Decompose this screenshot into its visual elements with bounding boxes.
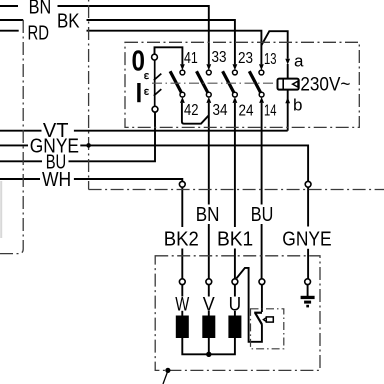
wire VT left segment (0, 130, 42, 132)
winding W (176, 316, 189, 339)
wire BN right segment to pole 33 (58, 6, 209, 64)
wire pole 42 down (182, 103, 209, 124)
pole 41 plug arrow down (180, 64, 185, 70)
lamp inner divider (282, 79, 284, 89)
svg-text:BK1: BK1 (217, 229, 253, 251)
pole 24 bottom circle (233, 92, 238, 97)
wire VT right segment to b (74, 130, 288, 132)
coupling line (152, 82, 277, 84)
connector circle WH (179, 181, 185, 187)
main switch top contact circle (152, 54, 158, 60)
wire GNYE right segment (80, 145, 308, 181)
wire GNYE below connector down to motor (307, 187, 309, 226)
pole 14 plug arrow up (259, 97, 264, 103)
wire branch RD to lamp terminal a (261, 31, 287, 59)
svg-text:23: 23 (238, 50, 253, 67)
motor terminal V circle (206, 279, 212, 285)
wire BU left segment (0, 160, 42, 162)
wire BK right segment to pole 23 (87, 20, 235, 64)
thermal actuator arrow (263, 318, 266, 322)
wire BN pole 34 down (208, 103, 210, 205)
svg-text:13: 13 (264, 51, 277, 68)
junction dot GNYE bond (86, 143, 91, 148)
wire BK1 pole 24 down (234, 103, 236, 227)
svg-text:V: V (203, 294, 215, 315)
pole 33 top circle (206, 70, 211, 75)
svg-text:230V~: 230V~ (300, 75, 350, 96)
pole 33 blade (197, 71, 208, 92)
wire motor U label stubs (234, 285, 236, 297)
lamp inner triangle (293, 81, 298, 87)
pole 33 plug arrow down (206, 64, 211, 70)
pole 23 plug arrow down (233, 64, 238, 70)
thermal actuator body (266, 317, 273, 322)
wire BK left segment (0, 19, 23, 21)
wire WH left segment (0, 178, 40, 180)
pole 34 bottom circle (206, 92, 211, 97)
wire a arrow to lamp (287, 64, 289, 79)
wire BU right segment up to main switch (69, 112, 156, 162)
label I (137, 83, 140, 102)
svg-text:24: 24 (239, 103, 254, 120)
main switch spring mark lower (145, 89, 149, 94)
svg-text:U: U (229, 294, 242, 315)
pole 34 plug arrow up (206, 97, 211, 103)
main switch shaft (154, 60, 162, 106)
svg-text:b: b (293, 96, 302, 115)
pole 23 blade (223, 71, 234, 92)
leader line (163, 373, 167, 384)
left supply box faint edge (0, 181, 2, 238)
pole 13 blade (249, 71, 260, 92)
svg-text:33: 33 (212, 49, 227, 66)
left supply box edge (0, 20, 23, 254)
label BN wire (195, 204, 221, 226)
svg-text:RD: RD (28, 23, 50, 45)
wire BN left segment (0, 5, 18, 7)
wire motor V label stubs (208, 285, 210, 297)
thermal switch box (251, 309, 284, 349)
svg-text:41: 41 (184, 50, 198, 67)
svg-text:BK: BK (57, 11, 80, 33)
wire motor terminal 4 down to thermal contact (261, 285, 263, 312)
pole 13 plug arrow down (259, 64, 264, 70)
svg-text:42: 42 (184, 102, 199, 119)
leader dot on motor box (165, 368, 170, 373)
motor box (155, 256, 320, 371)
wire V winding to star point (208, 338, 210, 354)
pole 14 bottom circle (259, 92, 264, 97)
svg-text:BN: BN (29, 0, 52, 19)
svg-text:BN: BN (196, 204, 220, 226)
main switch bottom contact circle (152, 106, 158, 112)
pole 41 top circle (180, 70, 185, 75)
wire main switch to pole 41 (155, 47, 183, 64)
svg-text:0: 0 (132, 45, 146, 77)
pole 24 plug arrow up (233, 97, 238, 103)
svg-text:a: a (294, 51, 304, 70)
wire BK2 connector down to motor W (181, 187, 183, 227)
svg-text:34: 34 (213, 102, 228, 119)
label BK2 wire (163, 228, 201, 251)
wire GNYE stub to earth (307, 285, 309, 296)
wire tap at U terminal to thermal switch (236, 268, 262, 342)
svg-text:BK2: BK2 (164, 229, 199, 251)
wire star bus (182, 338, 235, 354)
wire lamp b down to VT (287, 90, 289, 131)
wire motor W label stubs (181, 285, 183, 297)
pole 23 top circle (233, 70, 238, 75)
main switch spring mark upper (145, 74, 149, 79)
svg-text:BU: BU (251, 204, 273, 226)
thermal contact fixed bar (254, 312, 262, 314)
thermal contact blade (255, 313, 262, 324)
motor terminal 4 circle (259, 279, 265, 285)
pole 42 plug arrow up (180, 97, 185, 103)
wire RD right segment to pole 13 (87, 31, 262, 65)
lamp 230V body (278, 79, 299, 90)
connector circle GNYE (305, 181, 311, 187)
main switch detent flick upper (154, 74, 162, 81)
svg-text:14: 14 (264, 103, 277, 120)
plug arrow a down (285, 59, 290, 65)
main switch detent flick lower (154, 89, 162, 96)
label GNYE wire (281, 228, 333, 251)
pole 41 blade (170, 71, 181, 92)
label BK1 wire (216, 228, 255, 251)
motor terminal W circle (179, 279, 185, 285)
svg-text:W: W (175, 294, 189, 315)
wire WH right segment to connector (74, 179, 182, 181)
pole 13 top circle (259, 70, 264, 75)
motor terminal U circle (232, 279, 238, 285)
pole 42 bottom circle (180, 92, 185, 97)
earth symbol (301, 296, 315, 308)
wire RD left segment (0, 30, 19, 32)
machine enclosure left edge (88, 0, 90, 190)
label BU wire (250, 204, 276, 226)
switch unit enclosure box (125, 42, 359, 127)
wire BU pole 14 down (261, 103, 263, 205)
svg-text:GNYE: GNYE (282, 229, 331, 251)
svg-text:WH: WH (42, 169, 71, 191)
motor terminal GNYE circle (305, 279, 311, 285)
winding V (202, 316, 215, 339)
winding U (228, 316, 241, 339)
wire GNYE left segment (0, 144, 28, 146)
machine enclosure bottom edge (89, 189, 384, 191)
star point dot (206, 352, 211, 357)
plug arrow b up (285, 97, 290, 103)
